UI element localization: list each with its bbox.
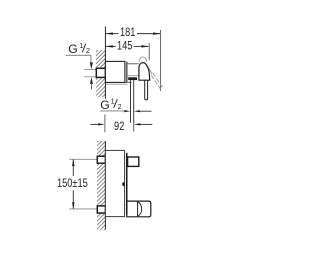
handle dome cap: [139, 63, 150, 81]
dimension 145: [106, 45, 149, 48]
lever handle pointing down: [145, 80, 148, 100]
mixer body (bottom view): [105, 150, 124, 216]
svg-text:1: 1: [79, 41, 83, 50]
svg-text:92: 92: [114, 120, 124, 133]
svg-text:145: 145: [117, 40, 133, 53]
outlet stub (bottom view): [128, 157, 139, 166]
label G 1/2 (top): [68, 41, 90, 56]
wall hatching (side view, top drawing): [96, 50, 105, 97]
inlet stub edge lines (side view): [84, 69, 105, 71]
bottom union stub (bottom view): [97, 206, 105, 213]
wall face line (bottom view): [104, 141, 106, 230]
inlet stub through wall (side view): [96, 68, 105, 77]
phantom lever lines (open position): [151, 75, 161, 89]
marker tick on body: [122, 183, 124, 186]
outlet nut (dark): [128, 77, 137, 80]
wall face line (side view): [104, 27, 106, 99]
body front edge line (side view): [126, 62, 128, 83]
leader from top G1/2 label with down arrow: [66, 55, 93, 69]
svg-text:150±15: 150±15: [57, 177, 88, 190]
extension line 181 right: [160, 30, 162, 91]
cartridge housing bottom line: [128, 75, 140, 77]
dimension 181: [106, 32, 161, 35]
svg-text:1: 1: [111, 97, 115, 106]
svg-text:181: 181: [120, 26, 136, 39]
knob end cap arc: [138, 202, 142, 216]
handle knob (bottom view): [127, 201, 151, 217]
top union stub (bottom view): [97, 156, 105, 163]
leader from bottom G1/2 label with right arrow: [100, 110, 130, 112]
extension line 145 right: [148, 43, 150, 61]
dimension 150±15: [72, 159, 75, 209]
svg-text:G: G: [68, 42, 77, 56]
svg-text:G: G: [100, 98, 109, 112]
label G 1/2 (bottom): [100, 97, 121, 113]
cover plate edge (bottom view): [126, 153, 128, 215]
body under line (side view): [106, 83, 128, 85]
extension line to top union: [69, 158, 97, 160]
dimension 92: [90, 123, 152, 125]
opposing arrow right of pipe: [134, 110, 152, 112]
up arrow leader below stub: [90, 77, 93, 90]
extension line to bottom union: [69, 208, 97, 210]
mixer body sleeve (side view): [105, 61, 125, 82]
outlet pipe (down): [130, 80, 132, 123]
cartridge housing top line: [127, 63, 139, 65]
dimension 92 left extension line: [104, 114, 106, 132]
svg-text:2: 2: [118, 102, 122, 111]
phantom dome arc (alternate handle position): [139, 57, 147, 62]
knob inner line: [137, 201, 139, 216]
wall hatching (bottom view): [97, 141, 105, 230]
svg-text:2: 2: [86, 46, 90, 55]
